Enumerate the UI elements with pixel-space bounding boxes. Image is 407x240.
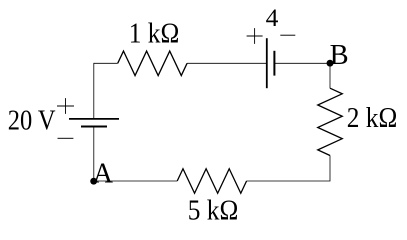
svg-text:4: 4 — [266, 3, 279, 32]
svg-text:A: A — [93, 158, 114, 189]
svg-text:5 kΩ: 5 kΩ — [188, 196, 239, 227]
battery V2 short plate (-) — [273, 51, 275, 76]
resistor R1 1kOhm zigzag — [118, 51, 187, 76]
wire R3 to node A — [94, 180, 177, 182]
svg-text:1 kΩ: 1 kΩ — [129, 19, 180, 50]
resistor R2 2kOhm zigzag vertical — [318, 88, 343, 155]
wire V1 up to top-left corner — [93, 63, 95, 118]
wire B down to R2 — [329, 63, 331, 88]
wire A up to battery V1 — [93, 127, 95, 181]
svg-text:B: B — [330, 40, 349, 71]
battery V2 long plate (+) — [266, 38, 268, 88]
minus sign V2 — [280, 34, 295, 36]
plus sign V1 — [57, 98, 74, 114]
node B dot — [327, 60, 334, 67]
battery V1 long plate (+) — [69, 118, 119, 120]
wire R2 to bottom-right corner — [246, 156, 330, 182]
wire top-left horizontal — [94, 62, 118, 64]
battery V1 short plate (-) — [81, 126, 107, 128]
node A dot — [90, 178, 97, 185]
svg-text:2 kΩ: 2 kΩ — [347, 103, 398, 134]
plus sign V2 — [247, 28, 263, 44]
svg-text:20 V: 20 V — [8, 106, 56, 137]
resistor R3 5kOhm zigzag — [177, 169, 246, 194]
wire R1 to battery V2 — [187, 62, 267, 64]
wire V2 to node B — [274, 62, 330, 64]
minus sign V1 — [58, 137, 74, 139]
